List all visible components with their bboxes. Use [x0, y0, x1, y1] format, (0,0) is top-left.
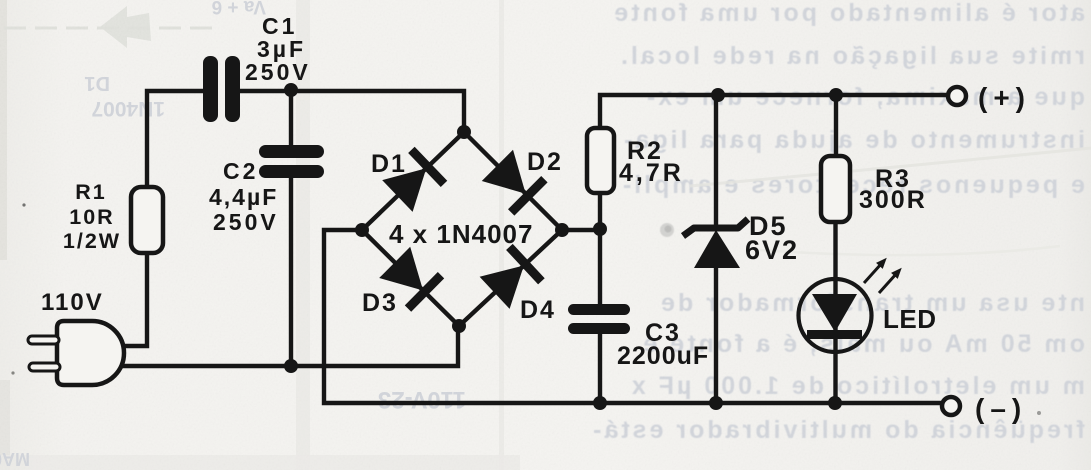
- svg-text:250V: 250V: [245, 59, 311, 85]
- terminal (-): [942, 397, 960, 415]
- node: D5 to negative rail: [709, 396, 723, 410]
- svg-text:300R: 300R: [859, 186, 927, 214]
- svg-text:D4: D4: [520, 296, 556, 324]
- wire: left AC rail from R1 top to C1: [147, 91, 204, 187]
- svg-text:4 x 1N4007: 4 x 1N4007: [389, 219, 533, 249]
- diode D2: [482, 150, 545, 213]
- label R2: [619, 137, 684, 187]
- wire: R2 top to positive rail and terminal: [600, 95, 949, 128]
- capacitor C3: [568, 304, 630, 334]
- terminal (+): [948, 87, 966, 105]
- svg-text:R1: R1: [75, 180, 106, 204]
- node: C2 to lower AC wire junction: [284, 359, 298, 373]
- label R3: [859, 165, 927, 214]
- zener diode D5: [683, 219, 748, 268]
- node: LED to negative rail: [828, 396, 842, 410]
- node: bridge right (DC+): [555, 223, 569, 237]
- label R1: [63, 180, 121, 253]
- svg-text:D2: D2: [527, 148, 563, 176]
- wire: D5 branch vertical: [714, 95, 718, 403]
- resistor R2: [587, 128, 614, 193]
- diode D1: [382, 150, 444, 212]
- svg-text:D3: D3: [362, 289, 398, 317]
- svg-text:(–): (–): [975, 393, 1027, 424]
- svg-text:10R: 10R: [69, 205, 114, 229]
- diode D4: [480, 247, 542, 309]
- wire: bridge left node to bottom negative rail: [324, 230, 941, 403]
- node: R2/C3/bridge junction: [593, 222, 607, 236]
- wire: R1 bottom to plug upper terminal: [121, 253, 147, 346]
- node: bridge bottom (AC): [452, 319, 466, 333]
- node: C3 to negative rail: [593, 396, 607, 410]
- svg-text:250V: 250V: [213, 209, 279, 235]
- diode D3: [379, 247, 441, 309]
- resistor R1: [131, 187, 163, 253]
- node: bridge left (DC-): [355, 223, 369, 237]
- wire: R3 branch to LED: [833, 95, 838, 403]
- wire: bridge right node to R2/C3 column: [562, 193, 600, 403]
- capacitor C2: [259, 145, 324, 178]
- node: R3 to positive rail: [829, 88, 843, 102]
- capacitor C1: [203, 56, 240, 122]
- node: bridge top (AC): [457, 125, 471, 139]
- wire: C2 bottom plate down to lower AC wire: [289, 177, 293, 366]
- LED indicator: [799, 255, 906, 352]
- wire: junction down to C2 top plate: [289, 91, 293, 146]
- svg-text:(+): (+): [978, 82, 1031, 113]
- label D5: [745, 211, 799, 265]
- svg-text:LED: LED: [883, 304, 937, 334]
- node: C1/C2 junction: [284, 83, 298, 97]
- svg-text:6V2: 6V2: [745, 235, 799, 265]
- svg-text:110V: 110V: [41, 289, 104, 316]
- label C3: [617, 319, 709, 370]
- svg-text:C2: C2: [223, 158, 258, 184]
- resistor R3: [821, 156, 850, 222]
- svg-text:1/2W: 1/2W: [63, 229, 121, 253]
- wire: plug lower terminal to bridge bottom node: [119, 326, 458, 366]
- svg-text:2200uF: 2200uF: [617, 342, 709, 370]
- wire: C1 right plate to bridge top corner: [240, 91, 464, 132]
- svg-text:4,7R: 4,7R: [619, 159, 684, 187]
- svg-text:D1: D1: [371, 150, 407, 178]
- node: D5 to positive rail: [711, 88, 725, 102]
- svg-text:4,4µF: 4,4µF: [209, 184, 278, 210]
- label C1: [245, 13, 311, 85]
- AC plug 110V: [28, 321, 124, 385]
- label C2: [209, 158, 279, 235]
- bridge rectifier diamond wires: [362, 132, 562, 326]
